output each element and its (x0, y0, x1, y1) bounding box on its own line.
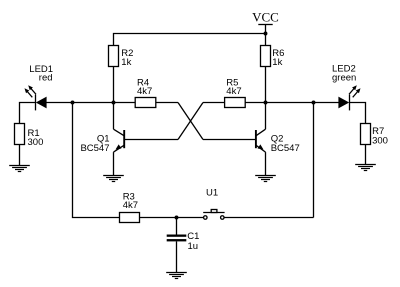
svg-text:BC547: BC547 (271, 143, 300, 154)
svg-text:VCC: VCC (252, 10, 279, 25)
svg-text:green: green (332, 72, 356, 83)
svg-text:300: 300 (28, 137, 44, 148)
svg-text:1u: 1u (188, 241, 199, 252)
svg-text:4k7: 4k7 (137, 86, 152, 97)
svg-text:1k: 1k (272, 57, 282, 68)
svg-text:red: red (39, 73, 53, 84)
svg-text:300: 300 (372, 135, 388, 146)
svg-text:U1: U1 (206, 188, 218, 199)
svg-text:4k7: 4k7 (123, 200, 138, 211)
svg-text:4k7: 4k7 (226, 86, 241, 97)
svg-text:BC547: BC547 (80, 143, 109, 154)
svg-text:1k: 1k (121, 57, 131, 68)
